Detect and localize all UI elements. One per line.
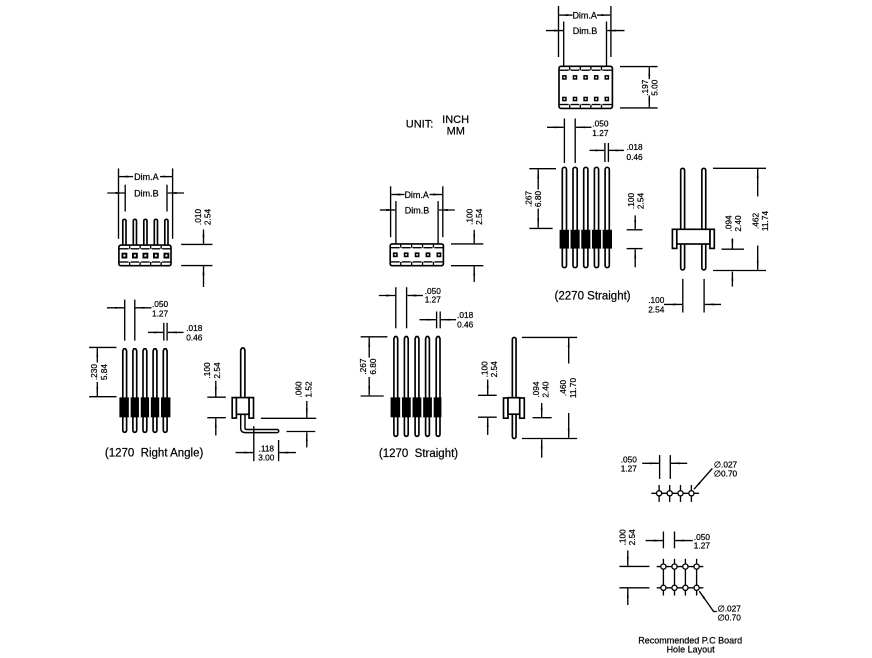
- svg-text:.060: .060: [294, 381, 304, 398]
- svg-text:1.52: 1.52: [303, 381, 313, 398]
- svg-text:Dim.A: Dim.A: [572, 10, 597, 20]
- svg-text:MM: MM: [447, 125, 465, 137]
- svg-text:(2270 Straight): (2270 Straight): [555, 291, 631, 303]
- svg-text:Dim.B: Dim.B: [573, 26, 598, 36]
- svg-text:2.54: 2.54: [648, 305, 665, 315]
- svg-text:0.46: 0.46: [186, 332, 203, 342]
- svg-text:(1270 Right Angle): (1270 Right Angle): [105, 448, 204, 460]
- svg-text:11.70: 11.70: [568, 378, 578, 399]
- svg-text:5.00: 5.00: [650, 79, 660, 96]
- svg-text:Dim.A: Dim.A: [404, 190, 429, 200]
- svg-text:1.27: 1.27: [592, 128, 609, 138]
- svg-text:2.54: 2.54: [474, 208, 484, 225]
- svg-text:.230: .230: [89, 364, 99, 381]
- svg-text:1.27: 1.27: [621, 464, 638, 474]
- svg-text:5.84: 5.84: [99, 364, 109, 381]
- svg-text:11.74: 11.74: [760, 211, 770, 232]
- svg-text:2.54: 2.54: [636, 193, 646, 210]
- svg-text:2.54: 2.54: [203, 209, 213, 226]
- svg-text:1.27: 1.27: [694, 540, 711, 550]
- svg-text:.100: .100: [202, 362, 212, 379]
- svg-text:.100: .100: [617, 529, 627, 546]
- svg-text:3.00: 3.00: [258, 453, 275, 463]
- svg-text:.018: .018: [627, 142, 644, 152]
- svg-text:Dim.A: Dim.A: [134, 172, 159, 182]
- svg-text:.050: .050: [592, 119, 609, 129]
- svg-text:Hole Layout: Hole Layout: [667, 645, 716, 655]
- svg-text:∅0.70: ∅0.70: [718, 612, 742, 622]
- svg-text:.267: .267: [524, 191, 534, 208]
- svg-text:(1270 Straight): (1270 Straight): [379, 448, 458, 460]
- svg-text:.267: .267: [358, 358, 368, 375]
- svg-text:.094: .094: [531, 381, 541, 398]
- svg-text:2.54: 2.54: [627, 529, 637, 546]
- svg-text:.018: .018: [186, 323, 203, 333]
- svg-text:2.40: 2.40: [733, 215, 743, 232]
- svg-text:.010: .010: [193, 209, 203, 226]
- svg-text:Dim.B: Dim.B: [134, 188, 159, 198]
- svg-text:.100: .100: [626, 193, 636, 210]
- svg-text:1.27: 1.27: [152, 308, 169, 318]
- svg-text:6.80: 6.80: [368, 358, 378, 375]
- svg-text:INCH: INCH: [442, 114, 469, 126]
- svg-text:.100: .100: [479, 361, 489, 378]
- svg-text:1.27: 1.27: [425, 295, 442, 305]
- svg-text:.462: .462: [750, 213, 760, 230]
- svg-text:.100: .100: [464, 208, 474, 225]
- svg-text:2.40: 2.40: [541, 381, 551, 398]
- svg-text:∅0.70: ∅0.70: [714, 468, 738, 478]
- svg-text:2.54: 2.54: [212, 362, 222, 379]
- svg-text:0.46: 0.46: [627, 152, 644, 162]
- svg-text:6.80: 6.80: [533, 191, 543, 208]
- svg-text:Dim.B: Dim.B: [405, 205, 430, 215]
- svg-text:.460: .460: [558, 380, 568, 397]
- svg-text:0.46: 0.46: [457, 319, 474, 329]
- svg-text:UNIT:: UNIT:: [406, 119, 434, 131]
- svg-text:.094: .094: [723, 215, 733, 232]
- svg-text:.050: .050: [152, 299, 169, 309]
- svg-text:.100: .100: [648, 295, 665, 305]
- svg-text:2.54: 2.54: [489, 361, 499, 378]
- svg-text:.197: .197: [640, 79, 650, 96]
